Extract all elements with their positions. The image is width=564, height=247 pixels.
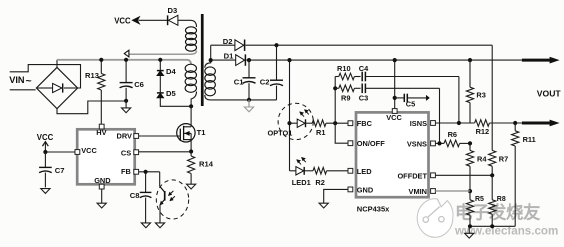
wire GND chip1 to ground xyxy=(101,189,103,203)
resistor R11 xyxy=(512,123,519,226)
svg-text:VOUT: VOUT xyxy=(537,88,562,98)
svg-text:VCC: VCC xyxy=(114,17,131,26)
junction dot C6 bottom xyxy=(124,99,128,103)
svg-text:C6: C6 xyxy=(134,80,144,89)
label R11 xyxy=(523,135,536,144)
svg-text:R13: R13 xyxy=(85,71,99,80)
junction dot clamp top xyxy=(158,58,162,62)
transformer T secondary winding xyxy=(205,67,216,96)
capacitor C5 xyxy=(395,94,430,102)
wire CS to source node xyxy=(139,151,192,153)
svg-text:VIN: VIN xyxy=(9,75,25,85)
diode D1 xyxy=(236,54,246,65)
wire VSNS stub xyxy=(435,142,444,144)
resistor R10 xyxy=(335,73,360,80)
junction dot R11 top xyxy=(513,121,517,125)
pin OFFDET xyxy=(397,171,435,180)
svg-text:R12: R12 xyxy=(476,127,490,136)
svg-text:D3: D3 xyxy=(168,6,178,15)
svg-text:R6: R6 xyxy=(448,130,457,139)
svg-text:R9: R9 xyxy=(341,94,350,103)
optocoupler OPTO1 LED xyxy=(290,119,313,127)
wire secondary top lead xyxy=(205,45,211,68)
label R1 xyxy=(316,128,325,137)
node VCC top-left label xyxy=(114,17,131,26)
diode D4 xyxy=(157,71,164,76)
wire ISNS line left xyxy=(435,122,474,124)
controller U1 body xyxy=(77,129,135,184)
svg-text:R14: R14 xyxy=(199,159,214,168)
svg-text:C4: C4 xyxy=(359,64,369,73)
svg-text:R11: R11 xyxy=(523,135,536,144)
wire HV rail (gray) bridge to transformer primary xyxy=(57,60,191,65)
diode D5 xyxy=(157,93,164,98)
svg-text:HV: HV xyxy=(96,128,106,137)
transistor T1 MOSFET xyxy=(177,124,195,142)
svg-text:ON/OFF: ON/OFF xyxy=(357,139,385,148)
wire GND U2 to ground xyxy=(324,189,348,203)
wire secondary bottom lead xyxy=(205,95,277,100)
junction dot D1 takeoff xyxy=(209,58,213,62)
pin VSNS xyxy=(407,140,436,149)
ground below C6 xyxy=(122,101,131,113)
pin GND U2 xyxy=(348,185,374,194)
label R7 xyxy=(499,155,508,164)
label C1 xyxy=(234,77,244,86)
VOUT arrow lower xyxy=(522,120,560,127)
junction dot FBC node xyxy=(333,121,337,125)
resistor R12 xyxy=(475,120,490,127)
junction dot rail R5 xyxy=(468,224,472,228)
svg-text:OFFDET: OFFDET xyxy=(397,171,427,180)
wire VIN lower lead xyxy=(10,89,36,91)
wire T1 drain xyxy=(190,106,192,127)
wire rail A D2 cathode to R7 drop xyxy=(246,44,493,46)
svg-text:CS: CS xyxy=(121,148,131,157)
wire VCC vertical from VOUT rail xyxy=(394,60,396,109)
svg-text:FBC: FBC xyxy=(357,119,373,128)
label R6 xyxy=(448,130,457,139)
svg-text:C2: C2 xyxy=(260,77,270,86)
label C2 xyxy=(260,77,270,86)
capacitor C6 xyxy=(120,60,133,101)
ground below bottom rail xyxy=(465,226,474,238)
label C7 xyxy=(55,166,65,175)
watermark chinese text xyxy=(455,203,541,223)
wire rail A drop to R7 xyxy=(491,45,493,150)
diode LED1 xyxy=(290,167,314,175)
label R2 xyxy=(315,178,324,187)
svg-text:~: ~ xyxy=(26,75,32,87)
svg-text:R5: R5 xyxy=(475,196,484,203)
ground below C8 xyxy=(141,223,150,228)
wire R1 to FBC xyxy=(326,122,348,124)
label D3 xyxy=(168,6,178,15)
svg-text:OPTO1: OPTO1 xyxy=(268,128,293,137)
label R5 xyxy=(475,196,484,203)
label C6 xyxy=(134,80,144,89)
optocoupler OPTO1 dashed ellipse (transistor side) xyxy=(156,180,188,219)
label C5 xyxy=(406,100,415,109)
capacitor C7 xyxy=(39,152,52,187)
label D2 xyxy=(223,37,233,46)
junction dot T1 source xyxy=(189,149,193,153)
ground below chip1 GND xyxy=(97,203,106,208)
label NCP435x xyxy=(357,205,390,214)
svg-text:C7: C7 xyxy=(55,166,65,175)
watermark elecfans logo xyxy=(417,199,453,238)
svg-text:D2: D2 xyxy=(223,37,233,46)
wire R2 to LED pin xyxy=(327,170,348,172)
wire FBC net vertical xyxy=(335,77,348,144)
svg-text:R10: R10 xyxy=(337,64,351,73)
wire D3 to aux winding xyxy=(178,20,197,27)
wire C3 net to VSNS xyxy=(439,88,441,143)
wire primary bottom to drain node xyxy=(191,92,196,107)
svg-text:GND: GND xyxy=(94,176,111,185)
pin VCC U2 xyxy=(386,109,402,123)
resistor R14 xyxy=(188,152,195,185)
pin FB xyxy=(121,167,139,176)
wire bridge top vertex to HV rail xyxy=(56,60,58,68)
svg-text:D1: D1 xyxy=(224,51,234,60)
aux return open arrow terminal xyxy=(124,50,129,57)
ground below C7 xyxy=(41,189,50,194)
wire VMIN line (gray) xyxy=(435,190,470,192)
label C8 xyxy=(130,191,140,200)
wire DRV to T1 gate xyxy=(139,135,180,137)
label R3 xyxy=(476,91,485,100)
label C3 xyxy=(359,94,368,103)
svg-text:VCC: VCC xyxy=(81,146,97,155)
transformer T primary winding xyxy=(185,64,196,92)
pin HV xyxy=(96,124,106,137)
wire VIN upper lead xyxy=(10,65,81,88)
svg-text:电子发烧友: 电子发烧友 xyxy=(455,203,541,223)
junction dot VSNS-C3 xyxy=(437,141,441,145)
label R9 xyxy=(341,94,350,103)
label T1 xyxy=(197,128,207,137)
svg-text:VSNS: VSNS xyxy=(407,140,427,149)
ground below R14 xyxy=(187,184,196,189)
bridge rectifier internal diode xyxy=(38,83,77,92)
junction dot R9 left xyxy=(333,86,337,90)
regulator U2 NCP435x body xyxy=(356,112,429,197)
junction dot primary bottom xyxy=(189,104,193,108)
junction dot C2 top xyxy=(274,43,278,47)
svg-text:C3: C3 xyxy=(359,94,368,103)
junction dot C4-ISNS xyxy=(457,121,461,125)
junction dot OPTO feed top xyxy=(287,58,291,62)
wire VCC arrow to D3 xyxy=(139,19,168,21)
svg-text:D4: D4 xyxy=(166,67,176,76)
label D1 xyxy=(224,51,234,60)
capacitor C3 xyxy=(362,84,439,94)
junction dot R6 right xyxy=(468,141,472,145)
junction dot OFFDET-R7R8 xyxy=(490,173,494,177)
resistor R3 xyxy=(466,60,473,123)
svg-text:VMIN: VMIN xyxy=(409,187,427,196)
resistor R9 xyxy=(335,85,360,92)
svg-text:R3: R3 xyxy=(476,91,485,100)
label VOUT xyxy=(537,88,562,98)
label R13 xyxy=(85,71,99,80)
label LED1 xyxy=(292,178,311,187)
optocoupler OPTO1 phototransistor xyxy=(160,172,165,223)
pin LED xyxy=(348,167,372,176)
resistor R13 xyxy=(98,60,105,90)
capacitor C4 xyxy=(362,72,459,82)
transformer T aux winding xyxy=(185,27,196,51)
optocoupler OPTO1 LED emission arrows xyxy=(299,109,309,116)
junction dot C5 tap xyxy=(393,96,397,100)
node VCC label chip1 area xyxy=(37,133,54,142)
label R10 xyxy=(337,64,351,73)
bridge rectifier BR1 outline xyxy=(36,67,77,108)
optocoupler light arrows into transistor xyxy=(168,191,175,201)
pin VMIN xyxy=(409,187,436,196)
wire FB to node xyxy=(139,171,160,173)
node VIN input label xyxy=(9,75,31,87)
wire D5 to primary bottom node xyxy=(160,98,191,106)
LED1 emission arrows xyxy=(296,157,306,164)
svg-text:DRV: DRV xyxy=(117,131,133,140)
resistor R4 xyxy=(466,143,473,191)
capacitor C2 xyxy=(270,45,283,100)
svg-text:C5: C5 xyxy=(406,100,415,109)
svg-text:T1: T1 xyxy=(197,128,207,137)
wire bottom ground rail xyxy=(469,225,515,227)
pin DRV xyxy=(117,131,139,140)
diode D3 xyxy=(168,15,178,25)
pin FBC xyxy=(348,119,373,128)
svg-text:R7: R7 xyxy=(499,155,508,164)
VOUT arrow upper xyxy=(522,57,560,64)
svg-text:C8: C8 xyxy=(130,191,140,200)
svg-text:GND: GND xyxy=(357,185,374,194)
wire OPTO feed vertical xyxy=(289,60,291,171)
label OPTO1 xyxy=(268,128,293,137)
resistor R5 xyxy=(466,191,473,226)
junction dot secondary ground xyxy=(247,98,251,102)
pin GND chip1 xyxy=(94,176,111,189)
resistor R7 xyxy=(489,150,496,175)
junction dot C1 top xyxy=(247,58,251,62)
wire bridge bottom return xyxy=(57,101,126,114)
junction dot C6 top xyxy=(124,58,128,62)
transformer T core xyxy=(201,14,204,106)
wire R12 to R11 node xyxy=(489,122,522,124)
resistor R2 xyxy=(313,168,327,175)
wire D2 anode lead xyxy=(211,44,235,46)
junction dot R13 top xyxy=(99,58,103,62)
pin VCC chip1 xyxy=(75,146,97,155)
pin ISNS xyxy=(410,119,436,128)
ground below U2 GND xyxy=(319,203,328,208)
svg-text:VCC: VCC xyxy=(386,113,402,122)
svg-text:ISNS: ISNS xyxy=(410,119,427,128)
wire aux return (gray) xyxy=(129,51,197,55)
label R8 xyxy=(497,196,506,203)
svg-text:C1: C1 xyxy=(234,77,244,86)
wire D4 to D5 xyxy=(159,76,161,93)
svg-text:R4: R4 xyxy=(477,155,487,164)
wire OFFDET line xyxy=(435,174,492,176)
svg-text:FB: FB xyxy=(121,167,131,176)
label R12 xyxy=(476,127,490,136)
resistor R6 xyxy=(444,140,470,147)
svg-text:LED1: LED1 xyxy=(292,178,311,187)
label D4 xyxy=(166,67,176,76)
watermark url text xyxy=(454,225,558,238)
svg-text:NCP435x: NCP435x xyxy=(357,205,390,214)
junction dot R3 top xyxy=(468,58,472,62)
svg-text:R2: R2 xyxy=(315,178,324,187)
label D5 xyxy=(166,89,176,98)
ground below phototransistor emitter xyxy=(155,223,164,228)
label R4 xyxy=(477,155,487,164)
wire D1 anode lead xyxy=(211,59,236,61)
pin CS xyxy=(121,148,139,157)
resistor R1 xyxy=(312,120,326,127)
capacitor C8 xyxy=(140,172,152,223)
label C4 xyxy=(359,64,369,73)
resistor R8 xyxy=(489,175,496,226)
wire C4 net to ISNS xyxy=(458,77,460,124)
optocoupler OPTO1 dashed ellipse (LED side) xyxy=(278,103,313,139)
junction dot OPTO LED anode xyxy=(287,121,291,125)
diode D2 xyxy=(235,40,245,51)
VCC up-arrow terminal xyxy=(42,142,48,152)
wire R13 to HV pin xyxy=(100,90,102,124)
svg-text:R1: R1 xyxy=(316,128,325,137)
capacitor C1 xyxy=(243,60,256,100)
svg-text:LED: LED xyxy=(357,167,372,176)
svg-text:R8: R8 xyxy=(497,196,506,203)
junction dot FB node xyxy=(144,170,148,174)
ground at secondary return (gray) xyxy=(244,100,253,112)
wire T1 source xyxy=(190,133,192,151)
junction dot rail R8 xyxy=(490,224,494,228)
svg-text:D5: D5 xyxy=(166,89,176,98)
wire VCC to chip1 xyxy=(45,151,75,153)
pin ON/OFF xyxy=(348,139,385,148)
wire clamp branch top xyxy=(159,60,161,70)
label R14 xyxy=(199,159,214,168)
junction dot VCC C7 xyxy=(43,150,47,154)
VCC arrow terminal xyxy=(132,16,140,24)
junction dot VMIN-R4R5 xyxy=(468,189,472,193)
junction dot VCC rail xyxy=(393,58,397,62)
wire rail B VOUT rail xyxy=(246,59,522,61)
